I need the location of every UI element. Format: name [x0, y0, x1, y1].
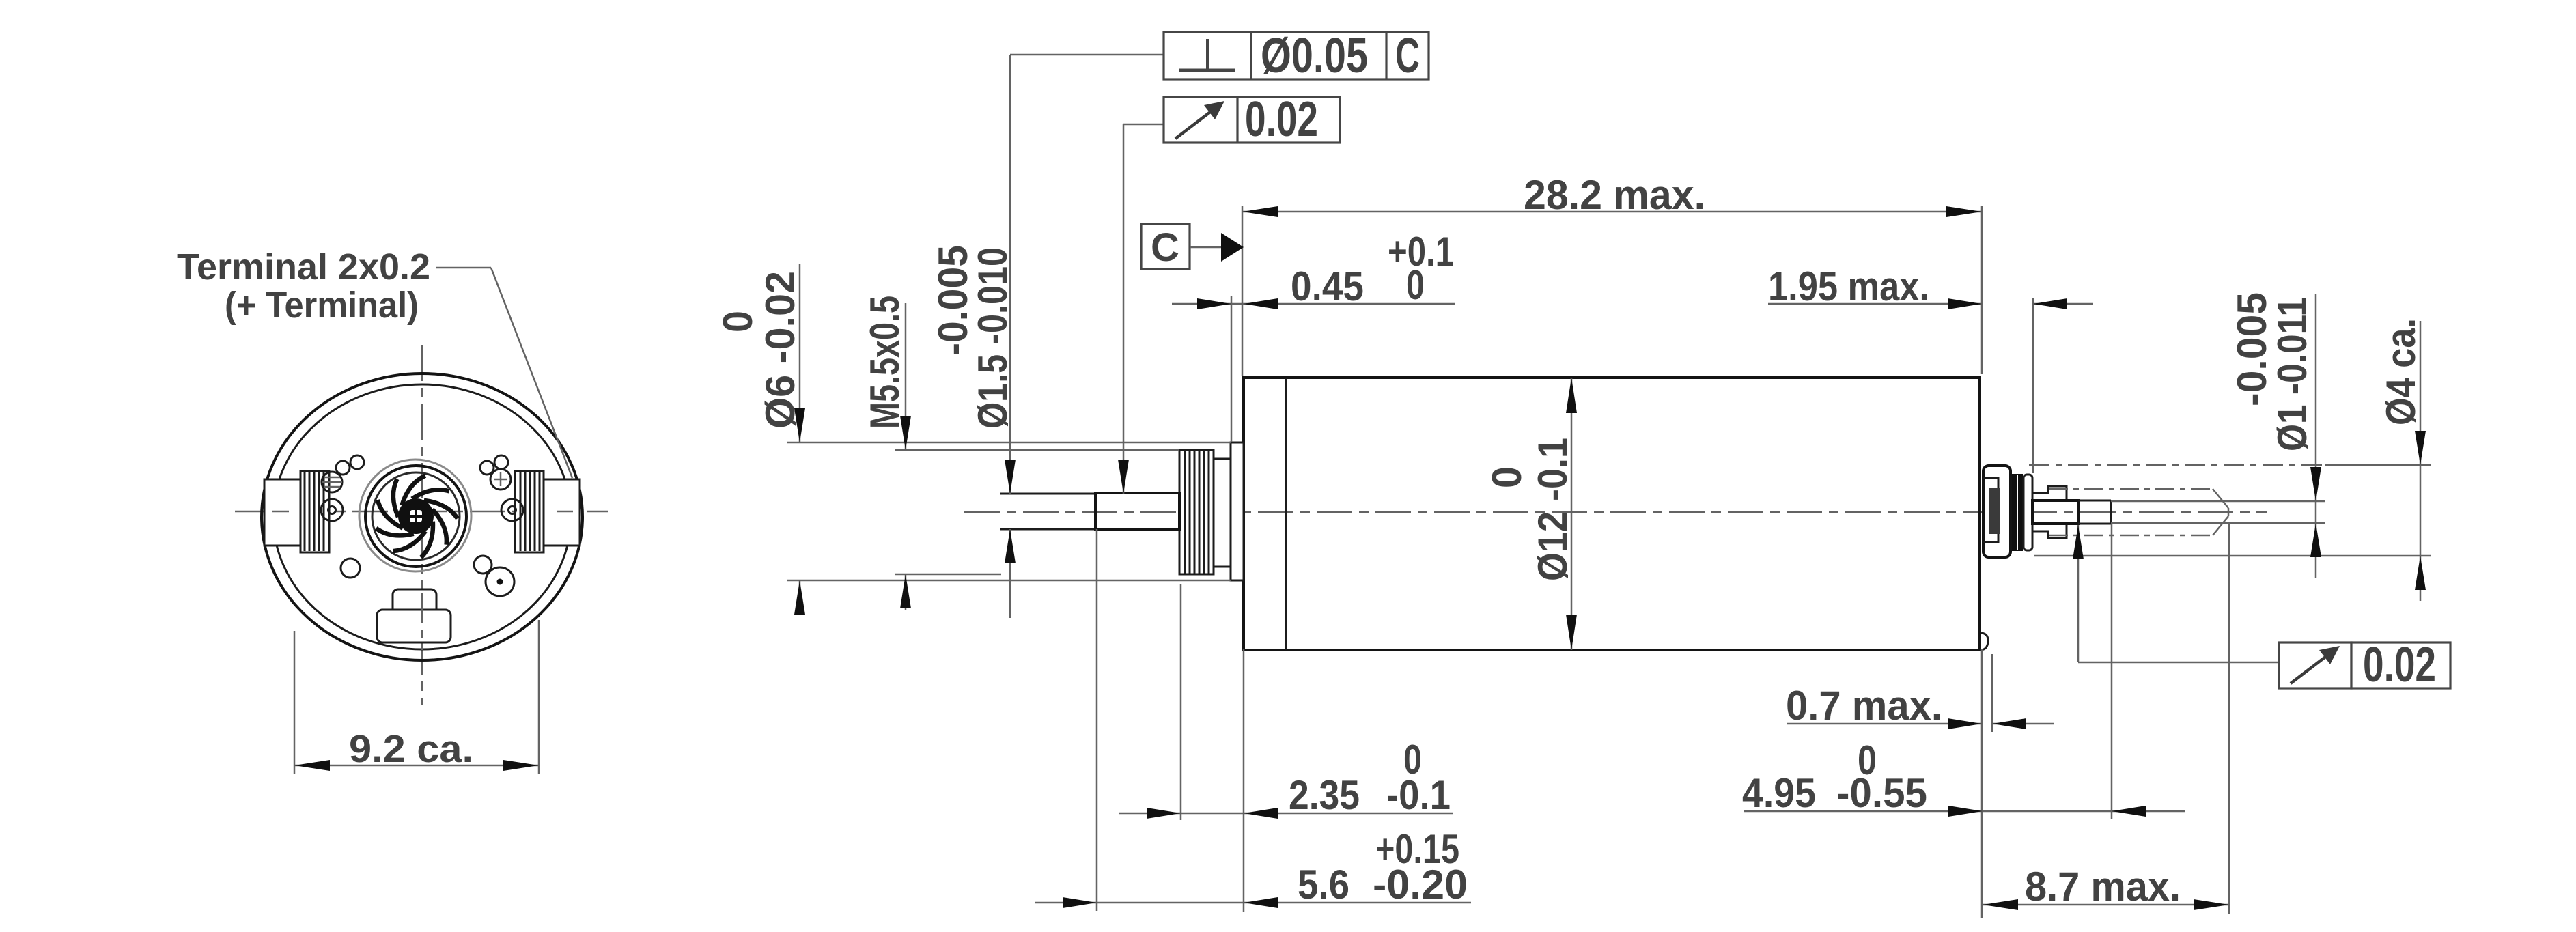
svg-text:Ø12 -0.1: Ø12 -0.1 — [1530, 438, 1576, 581]
svg-text:0.02: 0.02 — [2363, 638, 2436, 692]
svg-text:Ø1 -0.011: Ø1 -0.011 — [2269, 297, 2315, 451]
svg-text:2.35: 2.35 — [1289, 772, 1360, 818]
svg-text:0: 0 — [1858, 737, 1877, 783]
svg-text:Ø6 -0.02: Ø6 -0.02 — [757, 271, 803, 429]
svg-text:M5.5x0.5: M5.5x0.5 — [862, 296, 908, 429]
svg-text:-0.20: -0.20 — [1373, 862, 1468, 907]
svg-text:0.02: 0.02 — [1245, 92, 1318, 147]
svg-text:Terminal 2x0.2: Terminal 2x0.2 — [177, 246, 430, 287]
svg-text:-0.005: -0.005 — [930, 245, 976, 356]
svg-text:9.2 ca.: 9.2 ca. — [349, 727, 473, 771]
svg-text:Ø0.05: Ø0.05 — [1261, 29, 1368, 83]
svg-text:Ø1.5 -0.010: Ø1.5 -0.010 — [970, 247, 1016, 429]
svg-text:0: 0 — [1406, 262, 1425, 308]
svg-text:5.6: 5.6 — [1298, 862, 1349, 907]
svg-text:28.2 max.: 28.2 max. — [1524, 172, 1705, 218]
svg-text:0: 0 — [1484, 466, 1530, 488]
svg-text:C: C — [1395, 29, 1420, 83]
svg-text:1.95 max.: 1.95 max. — [1768, 264, 1929, 309]
svg-text:8.7 max.: 8.7 max. — [2025, 864, 2181, 909]
svg-text:0.45: 0.45 — [1291, 264, 1364, 309]
svg-text:4.95: 4.95 — [1742, 770, 1816, 816]
svg-text:0: 0 — [1403, 737, 1422, 782]
svg-text:(+ Terminal): (+ Terminal) — [225, 285, 419, 326]
svg-text:0: 0 — [715, 311, 761, 333]
svg-text:C: C — [1151, 225, 1179, 270]
svg-text:-0.005: -0.005 — [2229, 292, 2275, 406]
svg-text:Ø4 ca.: Ø4 ca. — [2378, 318, 2424, 425]
svg-text:0.7 max.: 0.7 max. — [1786, 683, 1942, 729]
svg-text:-0.55: -0.55 — [1836, 770, 1927, 816]
